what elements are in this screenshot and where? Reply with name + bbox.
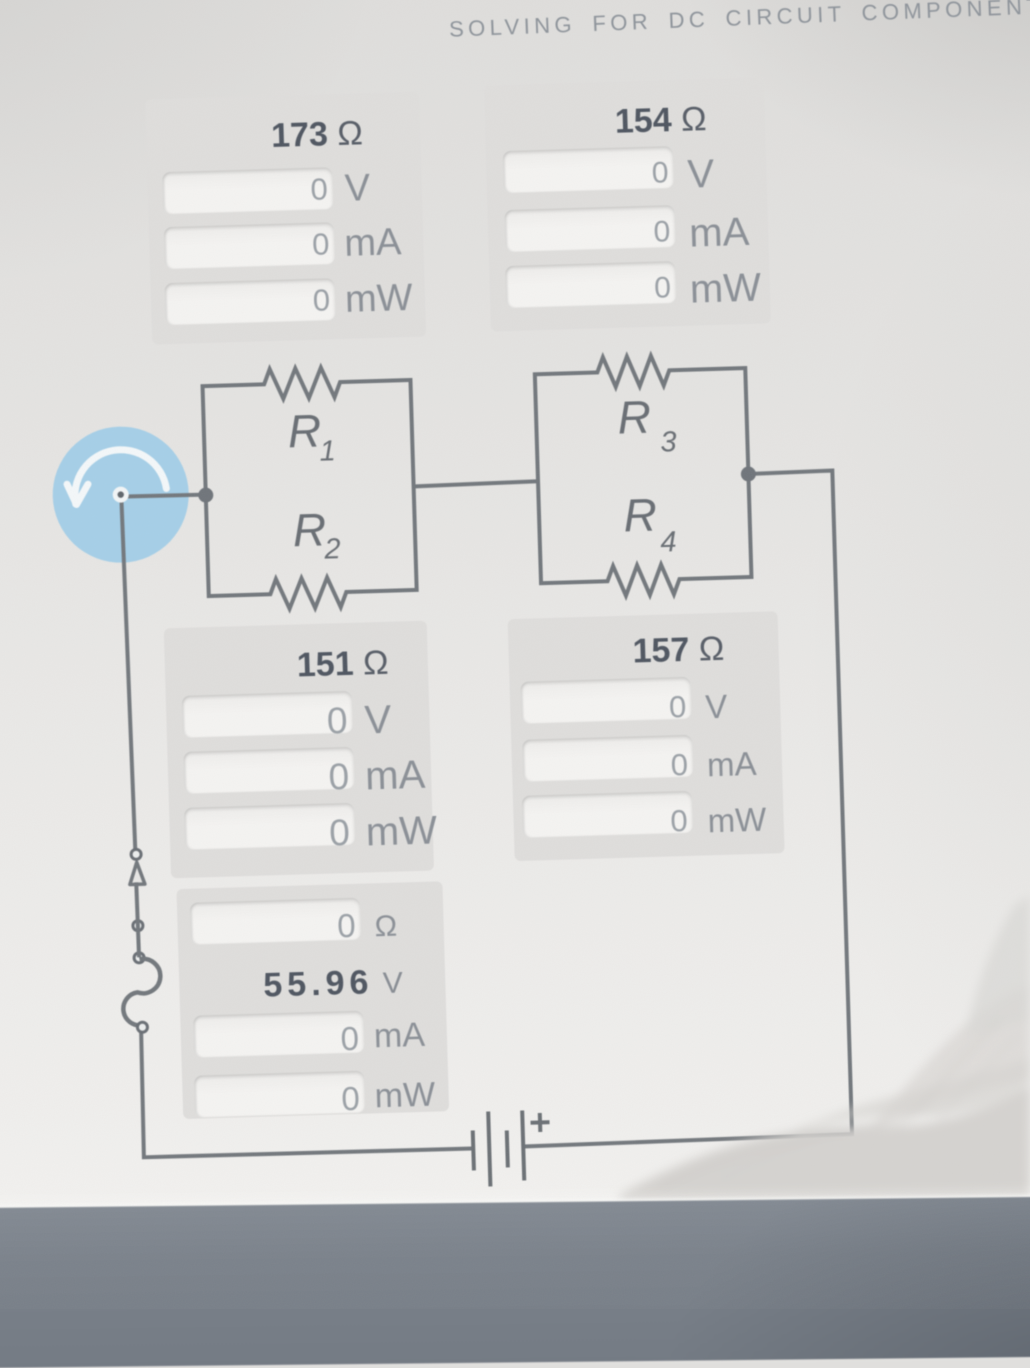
wire: loop1 to loop2	[414, 481, 538, 486]
battery + polarity mark	[530, 1113, 550, 1133]
battery resistance input 0 ohm	[190, 898, 361, 945]
junction node left	[198, 487, 213, 502]
node ring B	[133, 921, 143, 931]
battery B1 plate 1 (short)	[473, 1130, 474, 1170]
wire: node to left loop	[121, 494, 206, 497]
R2 voltage / current / power inputs	[182, 691, 353, 738]
value label R2 = 151 ohm	[296, 644, 389, 686]
R1 current input 0 mA	[164, 222, 335, 269]
center ring node on handle	[112, 486, 128, 502]
value label R3 = 154 ohm	[614, 100, 707, 142]
resistor R1 + resistor R2 parallel loop	[202, 365, 417, 611]
R3 power input 0 mW	[505, 261, 676, 308]
node ring C	[134, 953, 144, 963]
R4 voltage / current / power inputs	[520, 677, 691, 724]
R1 power input 0 mW	[164, 278, 335, 325]
node ring A	[131, 849, 141, 859]
screen bezel / desk edge	[0, 1196, 1030, 1368]
label R3	[617, 390, 677, 460]
wire: loop2 to right edge and down	[505, 471, 852, 1147]
rotation handle (blue circle with ccw arrow)	[51, 425, 191, 565]
battery B1 plate 3 (short)	[507, 1130, 508, 1167]
panel R2 values	[164, 621, 434, 879]
wire: left vertical drop from node	[121, 495, 135, 850]
label R1	[287, 404, 336, 468]
panel R3 values	[484, 77, 771, 331]
value label R1 = 173 ohm	[271, 114, 364, 156]
R1 voltage input 0 V	[162, 167, 333, 214]
panel R4 values	[508, 611, 785, 861]
value label battery 55.96 V	[263, 962, 404, 1005]
panel R1 values	[145, 92, 426, 345]
value label R4 = 157 ohm	[632, 630, 725, 672]
squiggle wire (S-bend)	[122, 958, 162, 1026]
wire: arrow to squiggle	[136, 882, 139, 957]
panel battery values	[176, 881, 449, 1119]
header title	[449, 0, 1030, 43]
battery B1 plate 2 (long)	[488, 1112, 490, 1187]
R3 voltage input 0 V	[503, 146, 674, 193]
node ring D	[137, 1022, 147, 1032]
junction node right	[741, 466, 756, 481]
current direction arrow on left wire	[129, 862, 145, 884]
label R2	[292, 503, 341, 566]
label R4	[623, 488, 677, 560]
resistor R3 + resistor R4 parallel loop	[534, 353, 751, 598]
R3 current input 0 mA	[504, 205, 675, 252]
wire: battery to bottom-left corner and up	[140, 1017, 475, 1158]
battery B1 plate 4 (long)	[522, 1110, 524, 1180]
